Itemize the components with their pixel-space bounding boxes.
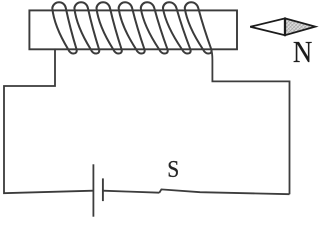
coil left lead wire <box>4 49 93 194</box>
switch S (closed blade) <box>159 189 289 194</box>
compass needle right half (hatched, N pole) <box>285 18 315 35</box>
compass needle left half (white) <box>250 18 285 35</box>
battery long plate (left) <box>92 164 94 216</box>
coil turn 3 <box>96 2 122 53</box>
coil turn 1 <box>52 2 76 53</box>
coil turn 4 <box>118 2 144 53</box>
coil turn 2 <box>74 2 99 53</box>
coil core rectangle <box>29 10 237 49</box>
coil turn 5 <box>140 2 167 53</box>
svg-text:N: N <box>293 34 312 69</box>
svg-text:S: S <box>167 156 179 183</box>
battery short plate (right) <box>102 178 104 201</box>
wire battery to switch <box>103 191 159 193</box>
coil turn 7 <box>184 2 211 53</box>
compass needle pivot line <box>284 18 286 35</box>
coil right lead wire <box>211 50 289 195</box>
coil turn 6 <box>162 2 190 53</box>
